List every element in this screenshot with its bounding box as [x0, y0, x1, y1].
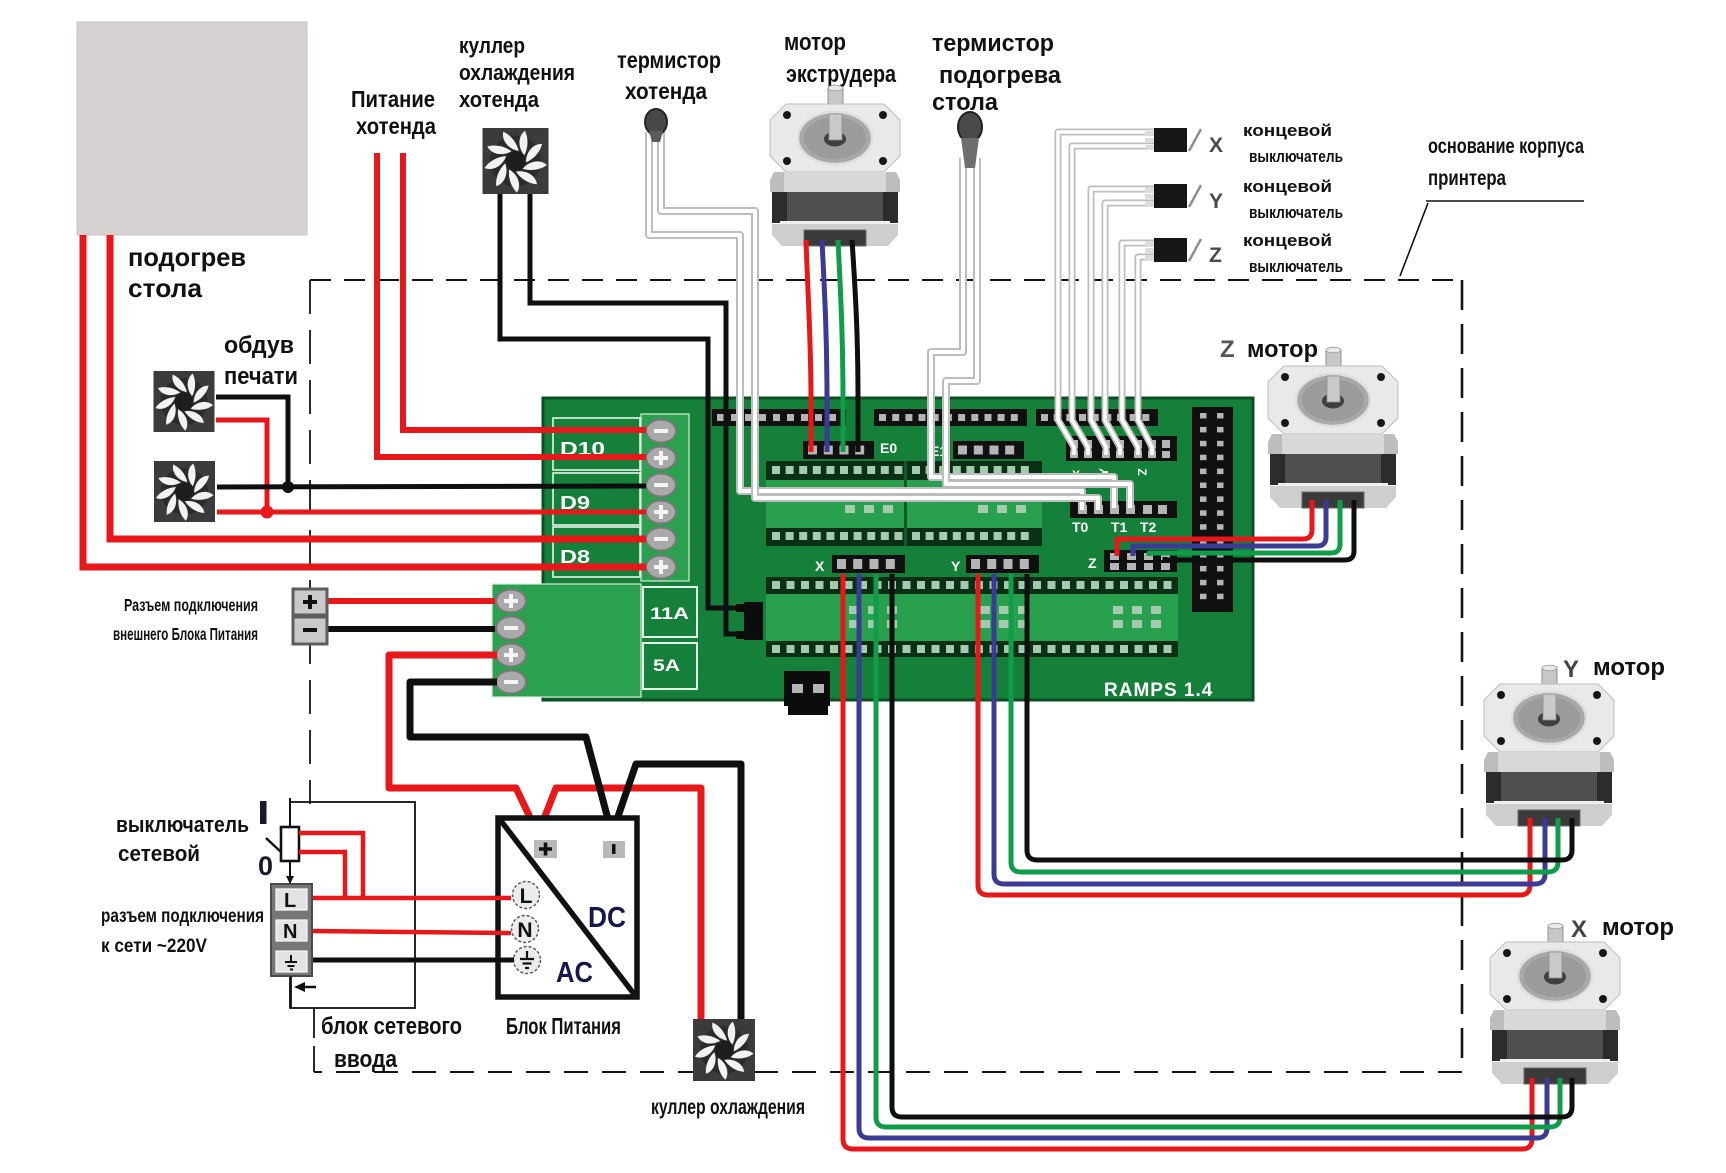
D10 box [553, 418, 640, 470]
PSU earth input [514, 947, 541, 974]
wire: bed thermistor lead R [946, 158, 1130, 508]
PSU L input [513, 882, 540, 909]
svg-text:Разъем подключения: Разъем подключения [124, 595, 258, 615]
driver socket module B [906, 461, 1042, 546]
label: Z [1209, 244, 1222, 267]
wire: fan bus black to D9- [217, 486, 646, 487]
Y limit switch [1145, 184, 1201, 208]
PSU cooling fan [693, 1019, 755, 1081]
wire: Y endstop lead 2 [1105, 203, 1154, 455]
label: основание корпуса принтера [1400, 135, 1584, 276]
svg-text:Питание: Питание [351, 86, 435, 112]
label: 0 (off) [258, 851, 273, 881]
mains input box (блок сетевого ввода) [290, 802, 415, 1008]
label: концевой выключатель (Y) [1243, 177, 1343, 222]
power input terminals +-+- [496, 590, 526, 694]
heated bed (подогрев стола) [77, 22, 307, 235]
svg-text:Y: Y [1209, 190, 1223, 213]
Z motor connector [1088, 550, 1177, 572]
Z stepper motor [1268, 347, 1398, 508]
wire: X green [876, 574, 1560, 1127]
PSU - terminal [603, 841, 625, 858]
label: Блок Питания [506, 1013, 621, 1039]
label: разъем подключения к сети ~220V [101, 905, 264, 957]
label: куллер охлаждения хотенда [459, 33, 575, 112]
svg-text:термистор: термистор [932, 30, 1054, 57]
svg-text:основание корпуса: основание корпуса [1428, 135, 1584, 158]
svg-text:X: X [1571, 916, 1587, 943]
wire: fan1 red lead [216, 420, 267, 512]
svg-text:мотор: мотор [1593, 654, 1665, 681]
svg-text:концевой: концевой [1243, 121, 1332, 140]
svg-text:концевой: концевой [1243, 177, 1332, 196]
X limit switch [1145, 128, 1201, 152]
svg-text:хотенда: хотенда [356, 113, 436, 139]
external PSU connector - [293, 617, 327, 644]
X motor connector [815, 555, 905, 574]
wire: Z black [1165, 500, 1354, 560]
label: подогрев стола [128, 242, 246, 303]
wire: extruder black [852, 240, 858, 452]
svg-text:разъем подключения: разъем подключения [101, 905, 264, 927]
E0 stepper connector [803, 440, 897, 459]
svg-text:обдув: обдув [224, 332, 294, 359]
wire: X endstop lead 1 [1058, 132, 1154, 455]
external PSU connector + [293, 589, 327, 615]
thermistor connector T0/T1/T2 [1070, 501, 1177, 518]
label: мотор экструдера [784, 29, 897, 88]
junction: red fan bus [261, 506, 274, 519]
svg-text:мотор: мотор [1247, 336, 1318, 363]
svg-text:T2: T2 [1140, 519, 1157, 535]
svg-text:внешнего Блока Питания: внешнего Блока Питания [113, 624, 258, 644]
svg-text:хотенда: хотенда [625, 78, 707, 104]
D8 box [553, 527, 640, 577]
svg-text:Y: Y [1563, 656, 1579, 683]
RAMPS 1.4 board [543, 398, 1253, 700]
wire: Z endstop lead 2 [1138, 257, 1154, 455]
wire: Y endstop lead 1 [1091, 189, 1154, 455]
svg-text:стола: стола [932, 89, 999, 116]
power input block on board [492, 584, 641, 697]
svg-text:блок сетевого: блок сетевого [321, 1013, 462, 1040]
wire: below terminal block [290, 976, 292, 1008]
PSU N input [512, 916, 539, 943]
svg-text:принтера: принтера [1428, 167, 1506, 190]
dual-row pin header [1192, 407, 1233, 612]
Y motor connector [951, 555, 1039, 574]
wire: ext PSU red [327, 598, 495, 604]
svg-text:Блок Питания: Блок Питания [506, 1013, 621, 1039]
label: Разъем подключения внешнего Блока Питания [113, 595, 258, 644]
svg-text:L: L [284, 890, 296, 912]
wire: Y blue [994, 574, 1545, 884]
svg-text:5A: 5A [653, 656, 680, 675]
D9 box [553, 473, 640, 525]
wire: X blue [859, 574, 1547, 1138]
wire: earth black [309, 958, 514, 963]
wire: hotend heater red lead 1 [377, 153, 646, 457]
label: Питание хотенда [351, 86, 436, 139]
label: термистор хотенда [617, 47, 721, 104]
svg-text:X: X [1209, 134, 1223, 157]
svg-text:выключатель: выключатель [1249, 203, 1343, 222]
svg-text:Y: Y [951, 558, 961, 574]
wire: bed thermistor lead L [931, 158, 1114, 508]
svg-text:куллер охлаждения: куллер охлаждения [651, 1096, 805, 1119]
svg-text:ввода: ввода [334, 1046, 398, 1073]
wire: extruder blue [822, 240, 827, 452]
label: куллер охлаждения [651, 1096, 805, 1119]
wire: hotend fan black lead 1 [500, 193, 738, 608]
print fan 1 [154, 371, 215, 432]
wire: X black [892, 574, 1572, 1117]
label: I (on) [260, 801, 267, 824]
print fan 2 [154, 461, 215, 522]
driver socket module A [766, 461, 906, 546]
svg-text:N: N [517, 919, 532, 942]
svg-text:концевой: концевой [1243, 231, 1332, 250]
pin header row 2 [874, 409, 1027, 426]
svg-text:выключатель: выключатель [1249, 147, 1343, 166]
label: Y мотор [1563, 654, 1665, 683]
svg-text:куллер: куллер [459, 33, 525, 58]
wire: hotend thermistor lead L [649, 132, 1082, 510]
label: блок сетевого ввода [321, 1013, 462, 1073]
svg-text:Z: Z [1135, 468, 1149, 475]
extruder stepper motor [770, 85, 900, 246]
wire: extruder green [838, 240, 843, 452]
svg-text:подогрева: подогрева [939, 62, 1062, 89]
wire: hotend thermistor lead R [661, 132, 1098, 510]
Z limit switch [1145, 238, 1201, 262]
RAMPS 1.4 silkscreen [1104, 680, 1213, 701]
svg-text:выключатель: выключатель [116, 812, 249, 837]
wire: Z blue [1133, 500, 1326, 556]
hotend thermistor bead [645, 109, 667, 142]
label: Y [1209, 190, 1223, 213]
label: X [1209, 134, 1223, 157]
5A fuse box [643, 643, 697, 689]
arrow: mains cable direction [294, 982, 316, 992]
wire: ext PSU black [327, 626, 495, 632]
wire: L bus red [309, 896, 511, 901]
bottom power connector on board [784, 671, 830, 715]
pin header row 1 [712, 409, 846, 426]
D10/D9/D8 screw terminals [646, 420, 676, 579]
PSU + terminal [534, 840, 557, 858]
svg-text:N: N [283, 921, 297, 943]
svg-text:AC: AC [556, 957, 593, 989]
PSU box (Блок Питания) [498, 818, 637, 997]
wire: main +12V red bus [389, 655, 701, 1019]
wire: X red [843, 574, 1532, 1149]
wire: switch to PSU L red [299, 833, 363, 897]
D-output terminal strip [641, 414, 689, 581]
svg-text:мотор: мотор [784, 29, 846, 56]
PSU AC label [556, 957, 593, 989]
lower socket strip [766, 577, 1178, 657]
svg-text:к сети ~220V: к сети ~220V [101, 935, 207, 957]
Y stepper motor [1484, 665, 1614, 826]
svg-text:Z: Z [1209, 244, 1222, 267]
svg-text:11A: 11A [650, 604, 689, 623]
bed thermistor bead [958, 112, 982, 168]
X stepper motor [1490, 923, 1620, 1084]
svg-text:охлаждения: охлаждения [459, 60, 575, 85]
svg-text:термистор: термистор [617, 47, 721, 73]
wire: bed heater red lead 2 [110, 235, 646, 539]
svg-text:T1: T1 [1111, 519, 1128, 535]
11A fuse box [643, 587, 697, 637]
wire: hotend fan black lead 2 [530, 193, 738, 634]
label: Z мотор [1220, 336, 1318, 363]
svg-text:стола: стола [128, 273, 203, 303]
endstop pin block X/Y/Z [1066, 436, 1177, 461]
wire: extruder red [806, 240, 811, 452]
svg-text:выключатель: выключатель [1249, 257, 1343, 276]
svg-text:Z: Z [1220, 336, 1235, 363]
svg-text:хотенда: хотенда [459, 87, 540, 112]
wire: main GND black bus [410, 682, 741, 1019]
pin header row 3 [1036, 409, 1158, 426]
wire: Z green [1149, 500, 1340, 556]
wire: bed heater red lead 1 [83, 235, 646, 567]
jumper block for fan wires [736, 602, 763, 640]
wire: N red [309, 931, 511, 933]
wire: X endstop lead 2 [1072, 146, 1154, 455]
wire: fan bus red to D9+ [217, 510, 646, 515]
svg-text:0: 0 [258, 851, 273, 881]
label: термистор подогрева стола [932, 30, 1062, 116]
wire: Y black [1027, 574, 1572, 860]
svg-text:T0: T0 [1072, 519, 1089, 535]
label: концевой выключатель (Z) [1243, 231, 1343, 276]
svg-text:DC: DC [588, 902, 626, 934]
endstop axis labels [1072, 468, 1149, 482]
label: обдув печати [224, 332, 298, 390]
wire: Y red [978, 574, 1530, 895]
T labels [1072, 519, 1157, 535]
svg-text:E0: E0 [880, 440, 897, 456]
svg-text:экструдера: экструдера [786, 61, 897, 88]
hotend cooling fan [483, 128, 549, 194]
E1 stepper connector [930, 441, 1024, 459]
svg-text:Z: Z [1088, 555, 1097, 571]
svg-text:RAMPS 1.4: RAMPS 1.4 [1104, 680, 1213, 701]
wire: Z endstop lead 1 [1122, 243, 1154, 455]
wire: Z red [1117, 500, 1312, 556]
svg-text:L: L [520, 885, 533, 908]
wire: hotend heater red lead 2 [403, 153, 646, 430]
label: X мотор [1571, 914, 1674, 943]
junction: black fan bus [282, 481, 294, 493]
svg-text:подогрев: подогрев [128, 242, 246, 272]
wire: fan1 black lead [216, 397, 288, 487]
PSU DC label [588, 902, 626, 934]
mains switch [266, 798, 299, 884]
svg-text:X: X [815, 558, 825, 574]
printer case base (dashed border) [310, 280, 1462, 1072]
svg-text:сетевой: сетевой [118, 841, 200, 866]
wire: L cell to switch red [299, 852, 345, 897]
wire: Y green [1011, 574, 1558, 872]
label: концевой выключатель (X) [1243, 121, 1343, 166]
mains terminal block L/N/earth [271, 884, 312, 976]
label: выключатель сетевой [116, 812, 249, 866]
svg-text:печати: печати [224, 363, 298, 390]
svg-text:мотор: мотор [1602, 914, 1674, 941]
